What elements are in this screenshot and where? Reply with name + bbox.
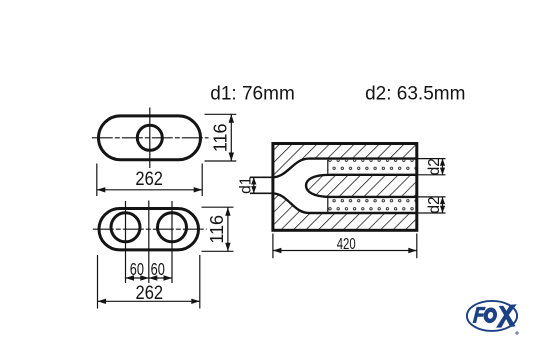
- centerline vertical: [149, 108, 151, 169]
- body outline: [273, 144, 417, 231]
- hole circle: [137, 125, 162, 150]
- perforation boundary top pipe: [327, 160, 329, 174]
- dim d2 bottom line: [442, 197, 444, 213]
- arrows bottom view: [98, 207, 231, 304]
- hole circle left: [111, 213, 140, 242]
- pipe bottom outer wall: [272, 193, 417, 213]
- pipe inner walls and flow divider wedge: [306, 175, 417, 197]
- silencer body hatched: [273, 144, 417, 231]
- dim 116 extension lines: [202, 206, 234, 208]
- dim d2 top pipe ext lines: [417, 158, 446, 160]
- centerline vertical right circle: [171, 201, 173, 283]
- centerline horizontal: [92, 137, 209, 139]
- dim 420 extension lines: [272, 234, 274, 259]
- dim 116 line: [227, 207, 229, 251]
- Y-pipe white cavity: [272, 159, 418, 213]
- dim 262 extension lines: [96, 164, 98, 197]
- dim 420 arrows: [273, 248, 417, 253]
- arrows top view: [97, 114, 234, 192]
- dim 262 line: [97, 189, 202, 191]
- logo letter F: [473, 307, 486, 323]
- perforation boundary bottom pipe: [327, 198, 329, 212]
- dim d1 line: [253, 177, 255, 193]
- svg-text:d2: d2: [426, 196, 443, 213]
- dim 420 line: [273, 250, 417, 252]
- inlet pipe stub bottom: [250, 192, 273, 194]
- oval body: [99, 209, 199, 250]
- svg-text:d1: 76mm: d1: 76mm: [210, 83, 294, 104]
- inlet pipe stub top: [250, 176, 273, 178]
- perforated pipe bottom: [328, 198, 416, 212]
- svg-text:262: 262: [136, 282, 164, 303]
- centerline vertical left circle: [125, 201, 127, 283]
- logo X stroke 2: [499, 306, 516, 327]
- svg-text:60: 60: [130, 260, 144, 279]
- svg-text:d2: d2: [426, 158, 443, 175]
- hole circle right: [158, 213, 187, 242]
- svg-text:d1: d1: [237, 177, 254, 194]
- dim d1 arrows: [251, 177, 256, 193]
- oval body: [99, 116, 201, 160]
- centerline vertical middle: [148, 201, 150, 284]
- dim 262 extension lines: [97, 255, 99, 309]
- dim 116 extension lines: [205, 113, 237, 115]
- svg-text:116: 116: [210, 123, 230, 152]
- dim d2 top line: [442, 159, 444, 175]
- centerline horizontal: [93, 228, 207, 230]
- svg-text:60: 60: [151, 260, 165, 279]
- perforated pipe top: [328, 160, 416, 174]
- dim 60/60 line: [126, 277, 173, 279]
- svg-text:262: 262: [135, 168, 163, 189]
- dim d2 bottom arrows: [440, 197, 445, 213]
- dim d2 top arrows: [440, 159, 445, 175]
- logo letter O: [482, 306, 499, 325]
- svg-text:420: 420: [337, 234, 356, 252]
- dim 262 line: [98, 300, 200, 302]
- registered mark: [516, 332, 518, 334]
- svg-text:116: 116: [207, 215, 227, 244]
- pipe top outer wall: [272, 159, 417, 178]
- svg-text:d2: 63.5mm: d2: 63.5mm: [365, 83, 465, 104]
- logo X stroke 1: [496, 304, 517, 327]
- logo ellipse: [467, 301, 517, 331]
- dim 116 line: [230, 114, 232, 161]
- dim d2 bottom pipe ext lines: [417, 196, 446, 198]
